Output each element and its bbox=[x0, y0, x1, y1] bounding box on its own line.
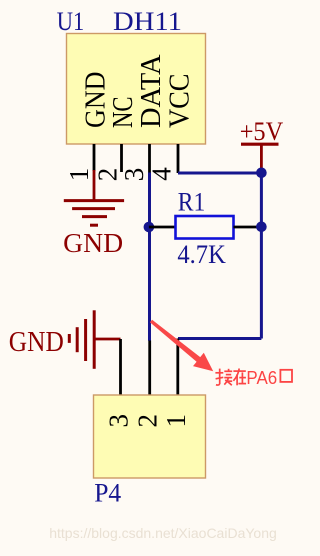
U1 pin 4 lead bbox=[177, 144, 180, 173]
wire pin1 to ground symbol bbox=[93, 170, 96, 200]
svg-text:+5V: +5V bbox=[240, 117, 284, 146]
P4 pin 1 lead bbox=[176, 339, 179, 396]
U1 pin 2 lead bbox=[120, 144, 123, 172]
resistor R1 right lead bbox=[234, 226, 262, 229]
svg-text:GND: GND bbox=[63, 228, 123, 258]
svg-text:1: 1 bbox=[161, 414, 191, 428]
svg-text:NC: NC bbox=[108, 97, 139, 129]
ground symbol (left, rotated) bbox=[69, 310, 94, 369]
annotation text 接在PA6口 bbox=[215, 369, 246, 386]
wire pin4 elbow to +5V net bbox=[178, 172, 261, 175]
U1 pin 1 lead bbox=[93, 144, 96, 171]
annotation arrow to PA6 bbox=[150, 320, 213, 372]
glyph 接 bbox=[215, 369, 232, 386]
component U1 body bbox=[67, 34, 206, 145]
svg-text:VCC: VCC bbox=[165, 74, 196, 129]
power symbol +5V stub bbox=[260, 145, 263, 173]
svg-text:PA6: PA6 bbox=[246, 367, 277, 388]
svg-text:3: 3 bbox=[104, 414, 134, 428]
P4 pin 3 lead bbox=[119, 339, 122, 395]
power symbol +5V bar bbox=[241, 143, 279, 146]
U1 pin 3 lead bbox=[148, 144, 151, 173]
wire +5V net vertical bbox=[260, 173, 263, 339]
wire +5V net bottom horizontal bbox=[178, 337, 261, 340]
svg-text:3: 3 bbox=[119, 168, 149, 182]
junction dot R1/+5V bbox=[256, 222, 267, 233]
glyph 在 bbox=[233, 369, 246, 386]
svg-text:2: 2 bbox=[92, 168, 122, 182]
svg-text:https://blog.csdn.net/XiaoCaiD: https://blog.csdn.net/XiaoCaiDaYong bbox=[49, 525, 277, 541]
svg-text:1: 1 bbox=[64, 168, 94, 182]
svg-text:R1: R1 bbox=[178, 187, 206, 216]
svg-text:U1: U1 bbox=[57, 7, 85, 36]
resistor R1 body bbox=[176, 216, 234, 239]
junction dot pin4/+5V bbox=[256, 168, 267, 179]
P4 pin 2 lead bbox=[148, 341, 151, 396]
wire DATA net vertical bbox=[148, 173, 151, 341]
junction dot DATA/R1 bbox=[144, 222, 155, 233]
svg-text:GND: GND bbox=[81, 71, 112, 128]
svg-text:P4: P4 bbox=[94, 477, 121, 507]
resistor R1 left lead bbox=[149, 226, 176, 229]
wire left ground to P4 pin 3 bbox=[94, 338, 120, 341]
svg-text:4.7K: 4.7K bbox=[177, 240, 226, 269]
ground symbol (below pin 1) bbox=[64, 201, 124, 226]
svg-text:DH11: DH11 bbox=[113, 7, 182, 36]
svg-text:DATA: DATA bbox=[136, 54, 167, 128]
svg-text:GND: GND bbox=[9, 327, 64, 358]
glyph 口 bbox=[280, 370, 292, 382]
component P4 body bbox=[94, 395, 206, 478]
svg-text:2: 2 bbox=[133, 414, 163, 428]
